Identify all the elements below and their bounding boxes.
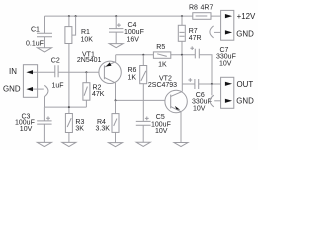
ground under C4 <box>109 44 123 48</box>
resistor R3 <box>68 107 70 142</box>
svg-text:3.3K: 3.3K <box>96 125 111 132</box>
ground under C5 <box>136 142 150 146</box>
capacitor C3 <box>43 107 45 142</box>
wire R1 wiper tap to rail <box>72 16 76 35</box>
node rail-R1 junction <box>68 15 70 17</box>
svg-text:C1: C1 <box>31 26 40 33</box>
svg-text:2SC4793: 2SC4793 <box>148 82 177 89</box>
svg-text:16V: 16V <box>127 37 140 44</box>
pin +12V arrow <box>225 14 232 18</box>
ground under C1 <box>38 48 52 52</box>
connector J2 power <box>221 10 234 40</box>
svg-text:R1: R1 <box>81 29 90 36</box>
wire GND pin to socket arc <box>33 88 44 90</box>
resistor R6 <box>142 55 144 122</box>
resistor R1 <box>68 16 70 107</box>
svg-text:10V: 10V <box>20 126 33 133</box>
resistor R2 <box>85 72 87 107</box>
transistor VT2 2SC4793 <box>165 90 187 112</box>
socket arc power GND <box>210 26 214 38</box>
wire GND pin to socket arc <box>214 31 221 33</box>
connector J3 output <box>221 77 234 108</box>
node base-R2 junction <box>85 71 87 73</box>
capacitor C2 <box>55 65 58 77</box>
svg-text:R5: R5 <box>156 44 165 51</box>
svg-text:47K: 47K <box>92 91 105 98</box>
svg-text:0.1uF: 0.1uF <box>26 40 44 47</box>
wire emitter feedback rail y54.8 <box>116 54 196 56</box>
wire node X horizontal <box>45 106 87 108</box>
node OUT junction <box>211 83 213 85</box>
svg-text:2N5401: 2N5401 <box>77 57 102 64</box>
resistor R4 <box>115 100 117 142</box>
svg-text:IN: IN <box>9 67 17 76</box>
ground under C3 <box>37 142 51 146</box>
socket arc input GND <box>44 85 48 96</box>
wire VT1 collector down <box>115 83 117 101</box>
svg-text:1K: 1K <box>158 61 167 68</box>
capacitor C6 <box>182 83 220 85</box>
node R7-C7-VT2 collector junction <box>181 54 183 56</box>
ground under VT2 <box>174 143 188 147</box>
svg-text:10K: 10K <box>81 37 94 44</box>
node rail-R7-R8 junction <box>181 15 183 17</box>
svg-text:C5: C5 <box>156 114 165 121</box>
wire input GND down to node X <box>44 97 46 108</box>
svg-text:GND: GND <box>236 97 254 106</box>
wire VT2 emitter to ground <box>180 112 182 143</box>
svg-text:R8: R8 <box>189 5 198 12</box>
svg-text:R7: R7 <box>189 28 198 35</box>
node X junction R1-R3 <box>68 106 70 108</box>
svg-text:10V: 10V <box>193 105 206 112</box>
svg-text:C2: C2 <box>51 58 60 65</box>
svg-text:47R: 47R <box>189 35 202 42</box>
capacitor C5 <box>136 121 151 125</box>
resistor R7 <box>181 16 183 55</box>
ground under R3 <box>62 142 76 146</box>
svg-text:R6: R6 <box>128 67 137 74</box>
pin GND arrow <box>26 87 33 91</box>
svg-text:1K: 1K <box>128 74 137 81</box>
svg-text:+12V: +12V <box>237 12 256 21</box>
svg-text:OUT: OUT <box>237 80 254 89</box>
pin OUT arrow <box>225 82 232 86</box>
resistor R8 <box>193 13 211 20</box>
wire VT1 collector to VT2 base <box>116 99 165 101</box>
connector J1 input <box>23 65 37 98</box>
wire C7 to OUT <box>199 55 212 84</box>
node R6 top junction <box>142 54 144 56</box>
wire socket arc to OUT GND pin <box>214 100 220 102</box>
wire VT2 collector up <box>181 55 183 92</box>
wire C1 to rail <box>44 16 46 48</box>
transistor VT1 2N5401 <box>99 61 121 83</box>
node rail-R1 tap junction <box>75 15 77 17</box>
svg-text:3K: 3K <box>75 125 84 132</box>
socket arc output GND <box>210 95 214 107</box>
svg-text:10V: 10V <box>219 61 232 68</box>
pin GND arrow <box>225 30 232 34</box>
resistor R5 <box>153 52 170 58</box>
capacitor C7 <box>195 49 199 59</box>
svg-text:GND: GND <box>236 30 254 39</box>
wire top supply rail <box>45 15 221 17</box>
capacitor C1 <box>37 33 52 37</box>
wire OUT junction down to socket arc <box>211 84 213 95</box>
wire C2 to VT1 base <box>58 71 99 73</box>
node rail-C4 junction <box>115 15 117 17</box>
pin GND arrow <box>225 99 232 103</box>
svg-text:1uF: 1uF <box>52 83 64 90</box>
svg-text:C4: C4 <box>128 22 137 29</box>
svg-text:4R7: 4R7 <box>201 5 214 12</box>
svg-text:100uF: 100uF <box>124 29 144 36</box>
wire VT1 emitter up <box>115 55 117 62</box>
capacitor C4 <box>115 16 117 43</box>
pin IN arrow <box>26 70 33 74</box>
node VT1 collector junction <box>115 99 117 101</box>
wire IN pin to C2 <box>33 71 55 73</box>
svg-text:GND: GND <box>3 85 21 94</box>
ground under R4 <box>109 143 123 147</box>
svg-text:10V: 10V <box>155 128 168 135</box>
